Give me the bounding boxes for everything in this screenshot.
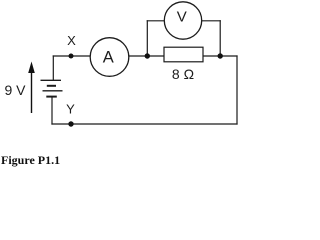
wire: battery top lead up to corner: [52, 56, 54, 80]
resistor R1 body: [164, 47, 203, 62]
wire: ammeter right to left junction: [129, 55, 164, 57]
node X junction dot: [69, 54, 74, 59]
battery B1 9 V: [41, 80, 63, 96]
wire: resistor right side to right outer corner: [203, 55, 237, 57]
voltmeter U2 circle: [164, 2, 201, 39]
caption Figure P1.1: [1, 153, 60, 168]
wire: voltmeter right leg horizontal: [201, 20, 220, 22]
svg-text:X: X: [67, 33, 76, 48]
wire: right outer vertical: [236, 56, 238, 124]
wire: battery bottom lead: [51, 97, 53, 124]
svg-text:8 Ω: 8 Ω: [172, 66, 194, 82]
svg-text:A: A: [103, 49, 114, 67]
node junction dot left of resistor: [145, 53, 150, 58]
wire: bottom horizontal return through node Y: [52, 123, 237, 125]
node Y junction dot: [68, 121, 73, 126]
svg-text:9 V: 9 V: [4, 82, 26, 98]
node junction dot right of resistor: [218, 53, 223, 58]
battery voltage arrow (polarity): [28, 62, 35, 114]
svg-text:V: V: [177, 9, 187, 26]
svg-text:Y: Y: [66, 102, 75, 117]
ammeter U1 circle: [90, 38, 129, 77]
wire: voltmeter right leg vertical down to junction: [219, 21, 221, 56]
wire: voltmeter left leg vertical: [146, 21, 148, 56]
wire: voltmeter left leg horizontal: [147, 20, 165, 22]
wire: top-left horizontal from corner through node X to ammeter: [53, 55, 90, 57]
